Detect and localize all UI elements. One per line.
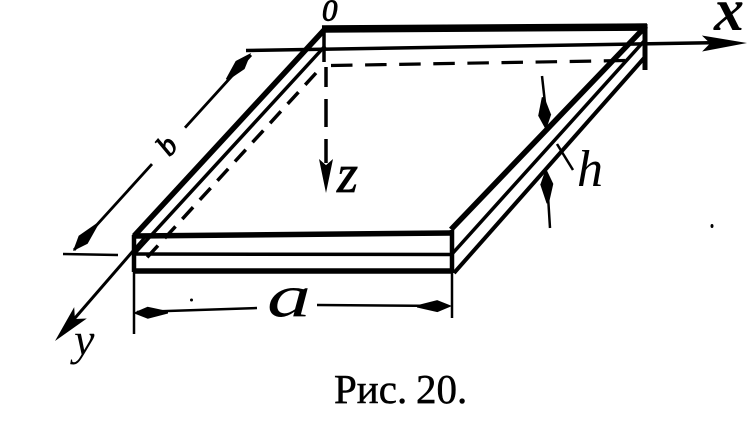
corner edge at B (back-right) bbox=[643, 24, 648, 70]
dimension h upper arrowhead bbox=[538, 97, 551, 130]
plate mid-plane: right edge (thin) bbox=[452, 40, 645, 254]
x-axis arrowhead bbox=[702, 36, 747, 52]
dimension h upper arrow shaft bbox=[542, 76, 545, 103]
dimension a extension line (left) bbox=[133, 262, 136, 334]
plate top face: back edge O-B (thick) bbox=[322, 27, 647, 29]
dimension b upper arrowhead bbox=[226, 53, 251, 81]
dimension a line (right segment) bbox=[317, 305, 448, 306]
svg-text:x: x bbox=[713, 0, 744, 43]
svg-text:y: y bbox=[70, 314, 95, 365]
plate mid-plane: front edge (thin) bbox=[134, 252, 452, 256]
svg-text:z: z bbox=[336, 144, 358, 204]
x-axis line bbox=[246, 43, 710, 51]
svg-text:a: a bbox=[267, 264, 311, 330]
ink speck (scan artifact) right of plate bbox=[711, 224, 714, 228]
dimension b lower arrowhead bbox=[73, 224, 98, 252]
plate bottom face: left edge (hidden, dashed) bbox=[142, 73, 316, 263]
plate mid-plane: left edge (thin) bbox=[134, 46, 325, 254]
corner edge at C (front-right) bbox=[450, 230, 455, 273]
y-axis line bbox=[62, 236, 146, 333]
svg-text:h: h bbox=[577, 141, 603, 198]
z-axis arrowhead bbox=[319, 159, 333, 193]
plate top face: left edge O-D (thick) bbox=[134, 29, 325, 236]
dimension h lower arrowhead bbox=[540, 169, 553, 204]
y-axis arrowhead bbox=[55, 307, 87, 341]
svg-text:0: 0 bbox=[322, 0, 338, 28]
plate bottom face: back edge (hidden, dashed) bbox=[331, 61, 627, 66]
corner edge at origin O bbox=[322, 28, 326, 62]
dimension a line (left segment) bbox=[137, 308, 257, 312]
dimension b line bbox=[74, 55, 251, 250]
dimension b extension line (bottom) bbox=[63, 254, 118, 255]
plate top face: front edge D-C (thick) bbox=[134, 233, 451, 236]
corner edge at D (front-left) bbox=[132, 235, 137, 272]
tick near h label bbox=[557, 144, 573, 170]
plate bottom face: right edge bbox=[454, 57, 645, 273]
ink speck (scan artifact) below b extension bbox=[190, 299, 193, 302]
dimension h lower arrow shaft bbox=[548, 196, 550, 228]
plate top face: right edge B-C (thick) bbox=[451, 26, 646, 230]
plate bottom face: front edge (thick) bbox=[134, 268, 453, 274]
svg-text:Рис.20.: Рис.20. bbox=[334, 366, 467, 412]
z-axis dashed line bbox=[324, 67, 328, 163]
dimension a left arrowhead bbox=[133, 307, 168, 319]
dimension a extension line (right) bbox=[451, 272, 454, 318]
dimension a right arrowhead bbox=[417, 300, 452, 312]
